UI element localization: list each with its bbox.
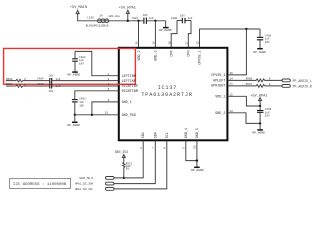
svg-text:TPA6130A2RTJR: TPA6130A2RTJR [141, 92, 193, 98]
svg-text:HP_AGND: HP_AGND [191, 169, 204, 172]
svg-text:1uF: 1uF [265, 37, 270, 40]
svg-text:GND_2: GND_2 [215, 112, 225, 116]
capacitor C459 [257, 106, 272, 123]
svg-text:+5V_HPA1: +5V_HPA1 [119, 7, 136, 11]
svg-text:120-ohm: 120-ohm [108, 14, 120, 18]
svg-text:C484: C484 [37, 78, 44, 81]
svg-text:10V: 10V [180, 14, 185, 17]
wire ground line to pin 21 [75, 114, 119, 116]
node junction at +5V_HPA1 [127, 20, 129, 22]
capacitor C458 [257, 29, 272, 44]
red annotation box [4, 48, 136, 84]
ground HP_AGND (C483) [67, 115, 80, 127]
capacitor C482 [72, 51, 86, 65]
IC U137 body [119, 48, 228, 141]
power flag 5V_MAIN [70, 6, 87, 13]
svg-text:1uF: 1uF [188, 17, 193, 20]
wire pin16 stub [229, 29, 247, 75]
power flag +5V_HPA1 (top) [119, 7, 136, 21]
svg-text:HPA1_SD_N: HPA1_SD_N [79, 177, 93, 180]
capacitor C481 [132, 14, 154, 24]
signal HPA1_SD_N [79, 141, 143, 180]
svg-text:1uF: 1uF [149, 17, 154, 20]
wire bead to C481 [107, 20, 143, 22]
svg-text:CPN: CPN [188, 51, 192, 57]
svg-text:RIGHTINM: RIGHTINM [122, 90, 138, 94]
svg-text:RIGHTINP: RIGHTINP [122, 85, 138, 89]
svg-text:10V: 10V [48, 90, 53, 93]
wire C480 left to pin 18 [171, 21, 177, 48]
power flag GEN_3V3 [115, 150, 128, 162]
svg-text:PP_AUDIO_R: PP_AUDIO_R [293, 84, 312, 88]
svg-text:HP_AGND: HP_AGND [159, 29, 172, 32]
port PP_AUDIO_R [282, 84, 312, 88]
ground HP_AGND (C482) [68, 62, 81, 77]
ground HP_AGND (C459) [252, 123, 265, 134]
wire pin 13 [229, 113, 261, 124]
svg-text:HPA1_I2C_SDA: HPA1_I2C_SDA [75, 183, 94, 186]
node junction SD_N/R571 [123, 177, 125, 179]
svg-text:HPRIGHT: HPRIGHT [211, 84, 225, 88]
wire pin 12 to +5V node [229, 96, 261, 106]
wire 5V_MAIN down and right [78, 14, 98, 21]
node junction C483/gnd [74, 114, 76, 116]
svg-text:20: 20 [136, 41, 139, 45]
svg-text:11: 11 [230, 82, 234, 85]
svg-text:SD#: SD# [142, 132, 146, 138]
ground HP_AGND (top rail) [159, 21, 172, 32]
wire pin 19 [154, 21, 156, 48]
node junction pin20 drop [137, 20, 139, 22]
svg-text:CPVSS_1: CPVSS_1 [211, 74, 225, 78]
svg-text:16: 16 [230, 72, 234, 75]
svg-text:VDD_1: VDD_1 [215, 95, 225, 99]
ground HP_AGND (C458) [253, 40, 266, 54]
svg-text:LEFTINP: LEFTINP [122, 80, 136, 84]
wire C484 to pin 2 [52, 80, 118, 82]
svg-text:L520: L520 [87, 16, 94, 19]
wire pin 15 riser and CPVSS rail [200, 29, 261, 48]
node junction VDD_1 [259, 105, 261, 107]
svg-text:+5V_HPA1: +5V_HPA1 [250, 94, 267, 98]
svg-text:19: 19 [153, 41, 156, 45]
svg-text:SDA: SDA [154, 131, 158, 138]
signal HPA1_I2C_SCL [75, 141, 167, 191]
wire pin 5 to C483 [75, 91, 119, 99]
inductor L520 ferrite bead [86, 14, 120, 27]
svg-text:18: 18 [168, 41, 171, 45]
svg-text:GEN_3V3: GEN_3V3 [115, 150, 128, 154]
svg-text:10: 10 [194, 145, 197, 149]
capacitor C484 [37, 74, 61, 83]
svg-text:+5V_MAIN: +5V_MAIN [70, 6, 87, 10]
wire pin 3 [92, 102, 119, 115]
svg-text:R567: R567 [246, 83, 253, 86]
svg-text:HPLEFT: HPLEFT [213, 79, 225, 83]
svg-text:HP_AGND: HP_AGND [253, 51, 266, 54]
node junction C459 bottom [259, 122, 261, 124]
svg-text:GND_4: GND_4 [185, 128, 189, 138]
svg-text:I2C ADDRESS : 1100000B: I2C ADDRESS : 1100000B [13, 183, 67, 187]
svg-text:2A: 2A [99, 15, 103, 18]
svg-text:SCL: SCL [166, 132, 170, 138]
svg-text:VDD_2: VDD_2 [138, 51, 142, 61]
resistor R571 [123, 162, 133, 178]
wire C481 to HP_AGND branch [147, 20, 166, 22]
resistor R566 [229, 78, 282, 82]
svg-text:C481: C481 [132, 17, 139, 20]
svg-text:PP_AUDIO_L: PP_AUDIO_L [293, 79, 312, 83]
node junction gnd4/5 [196, 159, 198, 161]
svg-text:10V: 10V [79, 62, 84, 65]
svg-text:15: 15 [197, 41, 200, 45]
ground HP_AGND (pins 9,10) [191, 167, 204, 172]
signal HPA1_I2C_SDA [75, 141, 155, 186]
capacitor C483 [72, 98, 86, 108]
node junction pin16 riser [245, 28, 247, 30]
svg-text:HP_AGND: HP_AGND [68, 74, 81, 77]
capacitor C485 [37, 83, 61, 93]
svg-text:HP_AGND: HP_AGND [67, 124, 80, 127]
svg-text:10V: 10V [48, 74, 53, 77]
note box I2C address [10, 178, 71, 188]
svg-text:17: 17 [186, 41, 189, 45]
svg-text:5%: 5% [126, 168, 130, 171]
wire pin 10 [196, 141, 198, 167]
svg-text:BLM18PG121SN1D: BLM18PG121SN1D [86, 24, 109, 27]
node junction pin19 drop [154, 20, 156, 22]
svg-text:C480: C480 [171, 17, 178, 20]
svg-text:HPA1_I2C_SCL: HPA1_I2C_SCL [75, 188, 94, 191]
svg-text:10V: 10V [265, 41, 270, 44]
resistor R567 [229, 83, 282, 87]
svg-text:GND_1: GND_1 [122, 101, 132, 105]
wire C480 right to pin 17 [188, 21, 191, 48]
svg-text:10V: 10V [79, 104, 84, 107]
wire C482 to pin 1 [75, 51, 119, 75]
power flag +5V_HPA1 (right) [250, 94, 267, 106]
wire C485 to pin 4 [52, 85, 118, 87]
resistor R500 [6, 78, 49, 82]
svg-text:CPP: CPP [170, 51, 174, 57]
svg-text:R566: R566 [246, 78, 253, 81]
svg-text:GND_PAD: GND_PAD [122, 114, 136, 118]
svg-text:CPVSS_2: CPVSS_2 [199, 51, 203, 65]
wire C483 to ground line [74, 102, 76, 114]
wire pin 20 [138, 21, 140, 48]
capacitor C480 [171, 14, 193, 23]
svg-text:21: 21 [105, 112, 109, 115]
svg-text:10V: 10V [143, 14, 148, 17]
port PP_AUDIO_L [282, 79, 312, 83]
svg-text:GND_5: GND_5 [196, 128, 200, 138]
resistor R501 [6, 83, 49, 87]
svg-text:IC137: IC137 [158, 85, 178, 91]
svg-text:10V: 10V [265, 115, 270, 118]
wire pin 9 [186, 141, 197, 161]
svg-text:C485: C485 [37, 83, 44, 86]
node junction pin3 branch [91, 114, 93, 116]
svg-text:LEFTINM: LEFTINM [122, 75, 136, 79]
svg-text:HP_AGND: HP_AGND [252, 132, 265, 135]
svg-text:GND_3: GND_3 [155, 51, 159, 61]
